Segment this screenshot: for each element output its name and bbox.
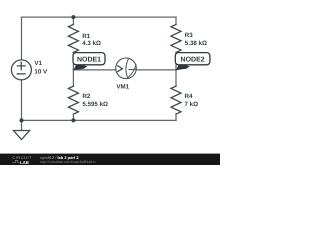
wire R2 top lead: [72, 70, 74, 86]
wire mid rail right (VM1 to node B): [136, 69, 176, 71]
resistor R2: [68, 86, 78, 114]
wire R2 bottom lead: [72, 114, 74, 120]
svg-text:4.3 kΩ: 4.3 kΩ: [82, 40, 101, 47]
resistor R3: [171, 24, 181, 52]
svg-text:R3: R3: [185, 32, 193, 39]
wire mid rail left (node A to VM1): [73, 69, 115, 71]
footer watermark bar: [0, 154, 220, 165]
svg-text:5.38 kΩ: 5.38 kΩ: [185, 40, 207, 47]
resistor R4: [171, 86, 181, 114]
label R4 value 7 kOhm: [185, 93, 199, 108]
svg-text:R1: R1: [82, 33, 90, 40]
wire R1 bottom lead to node A: [72, 52, 74, 70]
node flag NODE1: [73, 53, 105, 71]
label R1 value 4.3 kOhm: [82, 33, 101, 47]
svg-text:5.595 kΩ: 5.595 kΩ: [82, 101, 108, 108]
svg-text:NODE1: NODE1: [77, 56, 101, 63]
voltmeter VM1: [116, 58, 137, 79]
svg-text:http://circuitlab.com/c/apc8y8: http://circuitlab.com/c/apc8y8f4a2zc: [40, 160, 96, 164]
wire R4 top lead (node B to R4): [175, 70, 177, 86]
wire bottom rail: [22, 119, 177, 121]
wire right rail upper (top rail to R3): [175, 17, 177, 24]
svg-text:7 kΩ: 7 kΩ: [185, 101, 199, 108]
label VM1: [116, 84, 129, 91]
footer CircuitLab logo: [12, 155, 32, 165]
svg-text:10 V: 10 V: [34, 69, 48, 76]
svg-text:R4: R4: [185, 93, 193, 100]
footer title text: [40, 155, 96, 164]
wire ground stub: [21, 120, 23, 130]
wire R3 bottom lead to node B: [175, 52, 177, 70]
svg-text:V1: V1: [34, 60, 42, 67]
svg-text:VM1: VM1: [116, 84, 129, 91]
wire left rail lower (V1 to bottom rail): [21, 80, 23, 121]
node flag NODE2: [175, 53, 210, 71]
label R2 value 5.595 kOhm: [82, 93, 108, 108]
svg-text:R2: R2: [82, 93, 90, 100]
ground: [14, 131, 30, 140]
voltage source V1: [11, 60, 31, 80]
label R3 value 5.38 kOhm: [185, 32, 207, 47]
junction dot at left rail / bottom rail: [20, 118, 24, 122]
wire left rail upper (top rail to V1): [21, 17, 23, 60]
svg-text:NODE2: NODE2: [181, 56, 205, 63]
label V1 value: [34, 60, 48, 76]
resistor R1: [68, 24, 78, 52]
svg-text:LAB: LAB: [20, 160, 29, 165]
wire top rail: [22, 16, 177, 18]
junction dot at R1 / top rail: [71, 15, 75, 19]
wire right rail lower (R4 to bottom rail): [175, 114, 177, 120]
junction dot at R2 / bottom rail: [71, 118, 75, 122]
wire R1 top lead: [72, 17, 74, 24]
